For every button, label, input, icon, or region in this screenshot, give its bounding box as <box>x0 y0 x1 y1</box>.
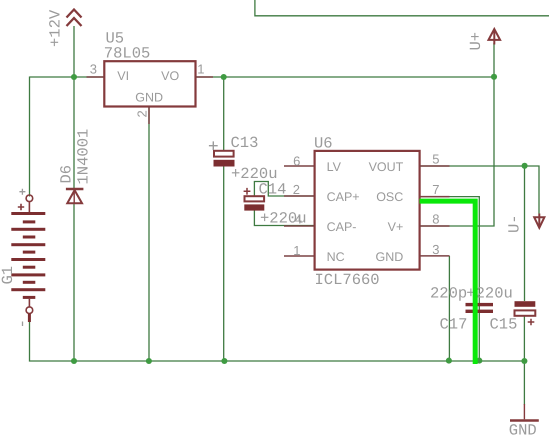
svg-text:3: 3 <box>432 242 439 257</box>
wire VOUT net <box>420 166 539 214</box>
wire diode bottom lead <box>73 203 75 361</box>
svg-text:220p: 220p <box>430 285 467 303</box>
pin U5.GND stub <box>148 107 150 125</box>
svg-text:2: 2 <box>135 110 150 117</box>
node junction VOUT C15 <box>522 163 528 169</box>
svg-text:VO: VO <box>161 69 179 83</box>
C13 plus sign <box>209 141 218 150</box>
battery G1 <box>11 189 45 326</box>
svg-text:3: 3 <box>90 62 97 77</box>
svg-text:G1: G1 <box>0 266 17 285</box>
svg-text:4: 4 <box>295 212 302 227</box>
supply U- arrow <box>534 214 544 228</box>
node junction rail C13 <box>221 358 227 364</box>
supply +12V arrow <box>67 10 82 27</box>
battery short plate 3 <box>23 251 36 254</box>
svg-text:LV: LV <box>327 160 342 174</box>
svg-text:VI: VI <box>117 69 129 83</box>
battery top clip <box>26 195 33 202</box>
wire U+ supply stem <box>493 43 495 77</box>
svg-text:C13: C13 <box>231 134 259 152</box>
wire OSC net thin <box>420 197 480 361</box>
C15 plus sign <box>528 319 535 326</box>
svg-text:C15: C15 <box>490 316 518 334</box>
svg-text:78L05: 78L05 <box>104 44 151 62</box>
wire diode top lead <box>73 77 75 188</box>
svg-text:2: 2 <box>293 182 300 197</box>
battery plus sign grey <box>19 189 25 195</box>
wire C15 top lead <box>524 166 526 301</box>
battery plus sign maroon <box>18 204 24 210</box>
wire C14 bottom to CAP- <box>254 211 314 226</box>
svg-text:U6: U6 <box>314 135 333 153</box>
battery long plate 6 <box>11 288 45 291</box>
svg-text:1: 1 <box>293 243 300 258</box>
wire C14 top to CAP+ <box>254 182 314 197</box>
wire U5 GND column <box>148 107 150 362</box>
battery long plate 2 <box>11 228 45 231</box>
svg-text:CAP+: CAP+ <box>327 190 360 204</box>
regulator U5 box <box>104 61 195 106</box>
IC U6 box <box>315 151 420 270</box>
svg-text:GND: GND <box>509 422 537 440</box>
node junction rail ICL GND <box>446 358 452 364</box>
pin U6.LV stub <box>284 165 314 167</box>
svg-text:D6: D6 <box>58 165 76 184</box>
pin U5.VI stub <box>87 76 104 78</box>
battery minus terminal mark <box>28 314 31 323</box>
svg-text:1N4001: 1N4001 <box>75 129 93 185</box>
svg-text:C17: C17 <box>440 316 468 334</box>
svg-text:GND: GND <box>135 91 163 105</box>
svg-text:U+: U+ <box>467 32 485 51</box>
pin U6.GND stub <box>420 255 450 257</box>
pin U6.CAP+ stub <box>284 195 314 197</box>
capacitor C15 <box>515 301 536 325</box>
battery short plate 2 <box>23 236 36 239</box>
battery bottom clip <box>28 299 30 307</box>
capacitor C13 <box>209 141 235 166</box>
wire +12V supply stem <box>73 26 75 77</box>
node junction rail C15 <box>521 358 527 364</box>
node junction rail diode <box>71 358 77 364</box>
battery short plate 4 <box>23 266 36 269</box>
pin U5.VO stub <box>196 76 214 78</box>
pin U6.V+ stub <box>420 225 450 227</box>
wire left column to battery <box>29 77 31 197</box>
svg-text:ICL7660: ICL7660 <box>315 271 380 289</box>
capacitor C17 <box>466 303 494 313</box>
battery short plate 6 <box>23 296 36 299</box>
battery long plate 4 <box>11 258 45 261</box>
wire highlighted OSC net bright green <box>420 201 476 364</box>
svg-text:8: 8 <box>432 211 439 226</box>
pin U6.CAP- stub <box>284 225 314 227</box>
node junction C13 top <box>221 74 227 80</box>
diode D6 <box>66 189 84 203</box>
svg-text:VOUT: VOUT <box>369 160 404 174</box>
battery short plate 1 <box>23 220 36 223</box>
battery minus sign grey <box>22 322 24 327</box>
wire C15 bottom lead to GND symbol <box>523 316 525 405</box>
node junction rail U5 GND <box>146 358 152 364</box>
svg-text:+12V: +12V <box>47 9 65 47</box>
svg-text:1: 1 <box>197 62 204 77</box>
node junction +12V top <box>71 74 77 80</box>
node junction V+ top <box>491 74 497 80</box>
svg-text:GND: GND <box>376 250 404 264</box>
pin U6.NC stub <box>284 255 314 257</box>
pin U6.OSC stub <box>420 196 450 198</box>
supply U+ arrow <box>489 29 501 45</box>
battery long plate 5 <box>11 273 45 276</box>
wire frame corner top <box>255 0 549 16</box>
wire C13 bottom lead <box>223 166 225 361</box>
wire bottom rail GND net <box>30 316 525 361</box>
svg-text:V+: V+ <box>388 220 404 234</box>
node junction rail OSC <box>476 358 482 364</box>
battery short plate 5 <box>23 281 36 284</box>
ground symbol GND <box>510 404 539 421</box>
svg-text:U-: U- <box>506 214 524 233</box>
svg-text:C14: C14 <box>259 181 287 199</box>
svg-text:7: 7 <box>432 182 439 197</box>
svg-text:6: 6 <box>293 153 300 168</box>
wire top-left segment +12V net <box>30 76 104 78</box>
wire V+ column <box>420 77 494 226</box>
wire C13 top lead <box>223 77 225 151</box>
C14 plus sign <box>244 188 251 195</box>
wire ICL7660 GND pin net <box>448 256 450 361</box>
svg-text:CAP-: CAP- <box>327 220 357 234</box>
svg-text:5: 5 <box>432 152 439 167</box>
svg-text:NC: NC <box>327 250 345 264</box>
capacitor C14 <box>244 188 265 211</box>
battery long plate 3 <box>11 243 45 246</box>
pin U6.VOUT stub <box>420 165 450 167</box>
wire top-right segment +5V net <box>196 76 495 78</box>
battery long plate 1 <box>11 212 45 215</box>
svg-text:OSC: OSC <box>376 190 403 204</box>
